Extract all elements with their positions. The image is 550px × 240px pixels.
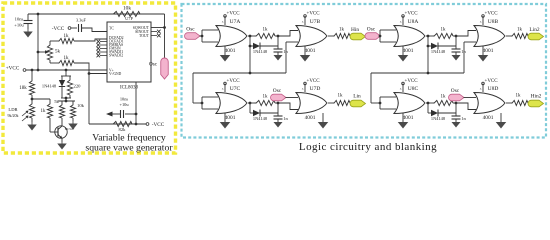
- svg-text:TC: TC: [109, 27, 114, 31]
- svg-text:+10u: +10u: [119, 102, 129, 107]
- svg-text:V-/GND: V-/GND: [109, 72, 122, 76]
- svg-text:1n: 1n: [283, 116, 288, 121]
- svg-text:4001: 4001: [225, 48, 236, 54]
- svg-text:Osc: Osc: [367, 27, 376, 33]
- svg-text:U8B: U8B: [488, 19, 499, 25]
- svg-text:+VCC: +VCC: [485, 12, 499, 17]
- svg-text:U8A: U8A: [408, 19, 419, 25]
- svg-text:1k: 1k: [441, 28, 447, 33]
- svg-text:4001: 4001: [225, 115, 236, 121]
- svg-text:10ns: 10ns: [120, 97, 129, 102]
- svg-text:Logic circuitry and blanking: Logic circuitry and blanking: [299, 141, 437, 153]
- svg-text:-VCC: -VCC: [52, 26, 65, 32]
- svg-text:10k: 10k: [77, 103, 85, 108]
- svg-text:4001: 4001: [403, 115, 414, 121]
- svg-text:SWADJ2: SWADJ2: [109, 54, 123, 58]
- svg-text:9k/20k: 9k/20k: [7, 113, 18, 118]
- svg-text:TOUT: TOUT: [139, 34, 150, 38]
- svg-text:10k: 10k: [123, 6, 131, 12]
- svg-text:3.3uF: 3.3uF: [76, 18, 86, 23]
- svg-text:Osc: Osc: [149, 62, 158, 68]
- svg-text:Osc: Osc: [273, 88, 282, 94]
- svg-text:1k: 1k: [64, 34, 70, 39]
- svg-text:+VCC: +VCC: [307, 79, 321, 84]
- svg-text:1k: 1k: [263, 28, 269, 33]
- svg-text:+10u: +10u: [14, 23, 24, 28]
- svg-text:5k: 5k: [55, 50, 61, 55]
- svg-text:10ns: 10ns: [15, 17, 24, 22]
- svg-text:+VCC: +VCC: [227, 79, 241, 84]
- svg-text:Osc: Osc: [451, 88, 460, 94]
- svg-text:Lin2: Lin2: [529, 27, 539, 33]
- svg-text:220: 220: [74, 84, 82, 89]
- svg-text:BC547: BC547: [65, 127, 75, 131]
- svg-text:+VCC: +VCC: [405, 79, 419, 84]
- svg-text:U7C: U7C: [230, 86, 241, 92]
- svg-text:1k: 1k: [338, 94, 344, 99]
- svg-text:4001: 4001: [483, 115, 494, 121]
- svg-text:Hin2: Hin2: [531, 94, 542, 100]
- svg-text:+VCC: +VCC: [405, 12, 419, 17]
- svg-text:1k: 1k: [516, 94, 522, 99]
- svg-text:82k: 82k: [119, 127, 127, 132]
- svg-text:U7P: U7P: [125, 16, 133, 21]
- svg-text:Osc: Osc: [186, 27, 195, 33]
- svg-text:4001: 4001: [305, 115, 316, 121]
- svg-text:1N4148: 1N4148: [253, 49, 268, 54]
- svg-text:U7A: U7A: [230, 19, 241, 25]
- svg-text:+VCC: +VCC: [6, 66, 20, 72]
- svg-text:4001: 4001: [305, 48, 316, 54]
- svg-text:+VCC: +VCC: [485, 79, 499, 84]
- svg-text:1k: 1k: [263, 95, 269, 100]
- svg-text:5k: 5k: [54, 99, 59, 104]
- svg-text:+VCC: +VCC: [307, 12, 321, 17]
- svg-text:1N4148: 1N4148: [431, 49, 446, 54]
- svg-text:1k: 1k: [339, 28, 345, 33]
- svg-text:1k: 1k: [41, 109, 47, 114]
- svg-text:LDR: LDR: [8, 107, 18, 112]
- svg-text:4001: 4001: [403, 48, 414, 54]
- svg-text:U8C: U8C: [408, 86, 419, 92]
- svg-text:1N4148: 1N4148: [253, 116, 268, 121]
- svg-text:Lin: Lin: [353, 94, 361, 100]
- svg-text:1n: 1n: [461, 116, 466, 121]
- svg-text:1N4148: 1N4148: [431, 116, 446, 121]
- svg-text:U8D: U8D: [488, 86, 499, 92]
- svg-text:1k: 1k: [517, 28, 523, 33]
- svg-text:1N4148: 1N4148: [42, 84, 57, 89]
- svg-text:U7B: U7B: [310, 19, 321, 25]
- svg-text:18k: 18k: [19, 86, 27, 91]
- svg-text:1k: 1k: [64, 56, 70, 61]
- svg-text:4001: 4001: [483, 48, 494, 54]
- svg-text:-VCC: -VCC: [152, 122, 165, 128]
- svg-text:square vawe generator: square vawe generator: [85, 143, 173, 154]
- svg-text:U7D: U7D: [310, 86, 321, 92]
- svg-text:1k: 1k: [441, 95, 447, 100]
- svg-text:+VCC: +VCC: [227, 12, 241, 17]
- svg-text:Hin: Hin: [351, 27, 359, 33]
